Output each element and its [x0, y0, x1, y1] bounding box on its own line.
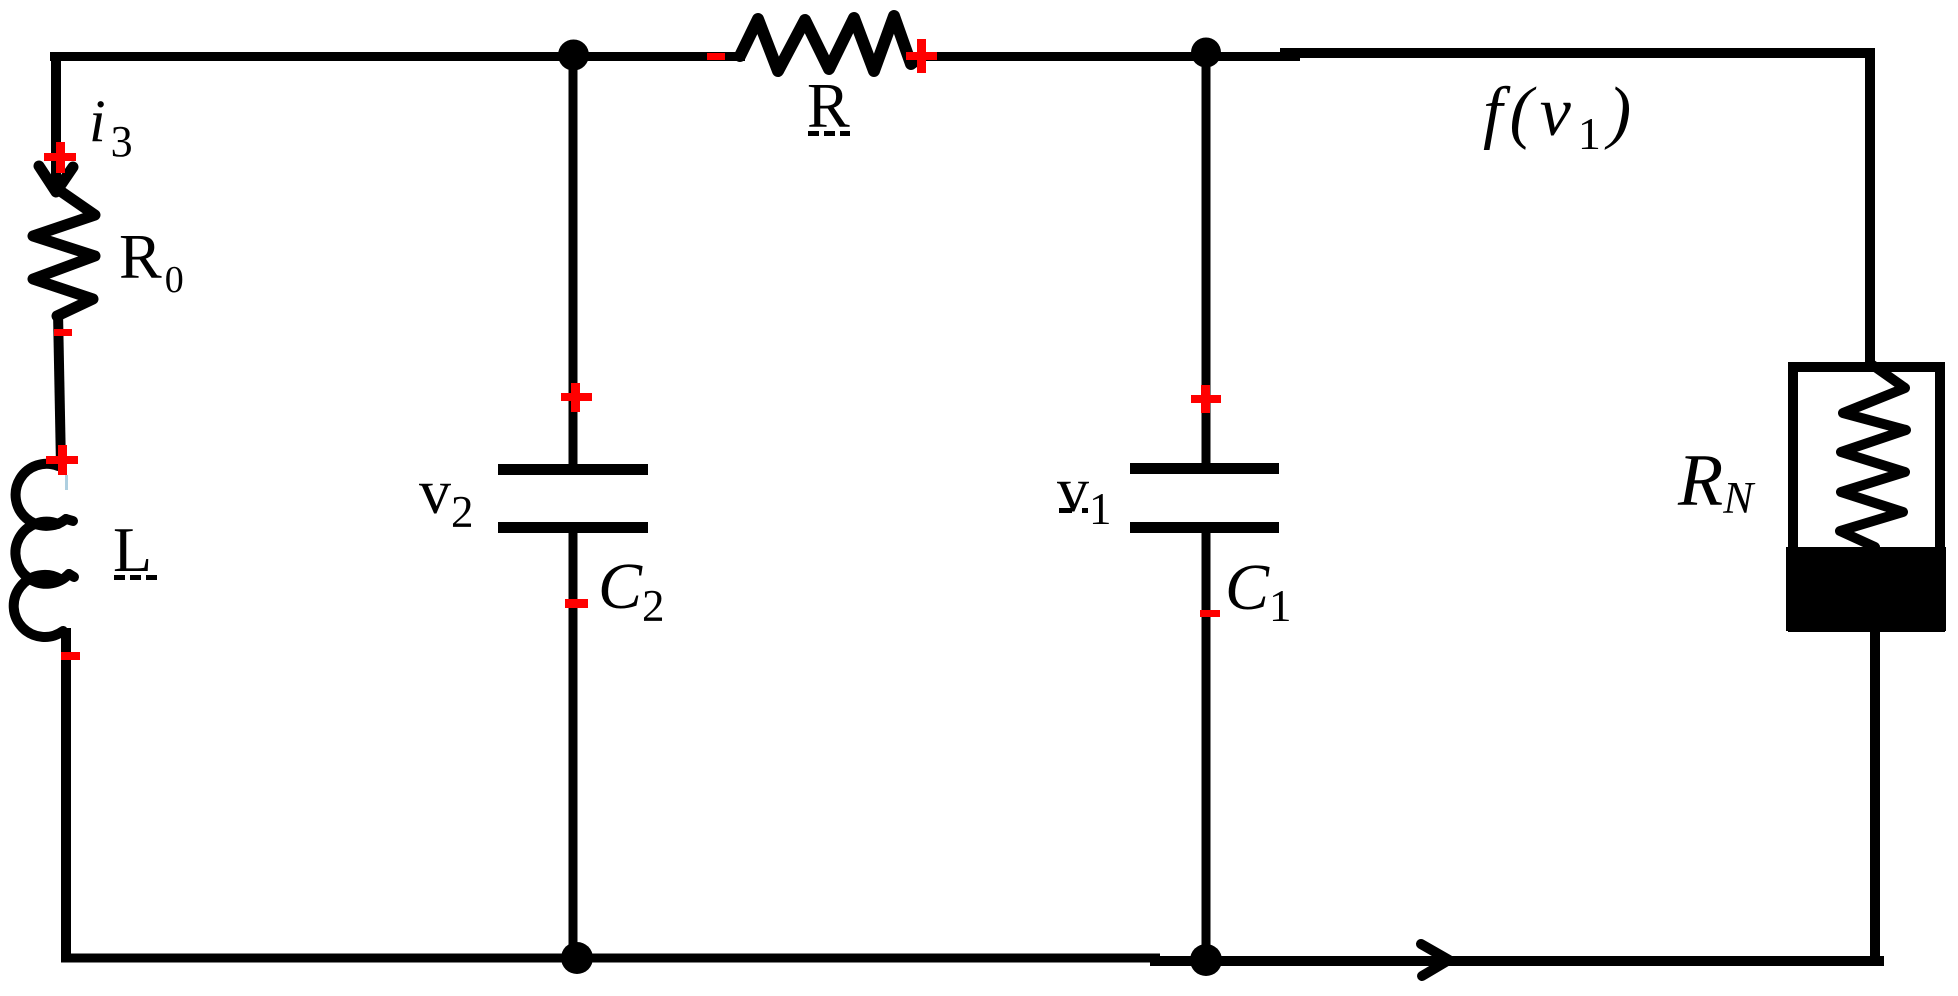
label L: [113, 514, 157, 585]
wire bottom right horizontal: [1150, 956, 1884, 966]
wire C2 branch upper: [569, 58, 578, 464]
wire C1 branch upper: [1202, 55, 1211, 463]
label v2: [419, 456, 474, 537]
node dot top C1: [1191, 38, 1221, 68]
plus mark (red) top of L: [46, 445, 78, 475]
label f(v1): [1483, 74, 1638, 159]
wire C1 branch lower: [1202, 533, 1211, 958]
svg-text:R0: R0: [119, 221, 184, 301]
label C2: [598, 550, 665, 631]
label C1: [1225, 551, 1292, 631]
svg-text:v2: v2: [419, 456, 474, 537]
plus mark (red) top of R0: [44, 142, 76, 173]
wire right vertical lower: [1870, 631, 1880, 963]
svg-text:RN: RN: [1677, 440, 1756, 523]
Chua diode RN box: [1786, 367, 1946, 631]
minus mark (red) left of R: [707, 53, 725, 60]
plus mark (red) above C2: [561, 383, 592, 412]
capacitor C2 plates: [498, 464, 648, 533]
capacitor C1 plates: [1130, 463, 1279, 533]
svg-text:C2: C2: [598, 550, 665, 631]
minus mark (red) below C1: [1200, 610, 1220, 617]
plus mark (red) right of R: [906, 39, 937, 73]
current arrow i3: [39, 166, 73, 192]
RN internal resistor zigzag: [1840, 364, 1906, 547]
wire left vertical upper: [51, 52, 61, 192]
node dot bottom C1: [1190, 944, 1222, 976]
svg-text:C1: C1: [1225, 551, 1292, 631]
wire top right horizontal: [1280, 48, 1875, 58]
wire left vertical lower: [61, 628, 71, 960]
minus mark (red) below R0: [54, 329, 72, 336]
svg-text:i3: i3: [89, 88, 133, 166]
label R: [807, 70, 850, 141]
wire top left horizontal: [50, 52, 745, 61]
plus mark (red) above C1: [1191, 385, 1221, 413]
pale blue tick: [65, 475, 68, 490]
wire C2 branch lower: [569, 533, 578, 958]
minus mark (red) below C2: [565, 599, 588, 608]
minus mark (red) below L: [61, 652, 80, 660]
svg-text:L: L: [113, 514, 152, 585]
bottom current arrow: [1421, 944, 1449, 976]
label RN: [1677, 440, 1756, 523]
resistor R0 zigzag: [33, 188, 95, 316]
label R0: [119, 221, 184, 301]
svg-text:f(v1): f(v1): [1483, 74, 1638, 159]
resistor R zigzag: [740, 16, 919, 71]
label i3: [89, 88, 133, 166]
node dot bottom C2: [561, 942, 593, 974]
svg-text:R: R: [807, 70, 850, 141]
wire right vertical upper: [1865, 48, 1875, 368]
svg-text:v1: v1: [1057, 454, 1112, 534]
wire top middle horizontal: [906, 52, 1300, 61]
inductor L coil: [14, 464, 74, 637]
node dot top C2: [558, 40, 589, 71]
label v1: [1057, 454, 1112, 534]
wire bottom left horizontal: [61, 954, 1160, 963]
wire left vertical mid: [58, 312, 61, 466]
